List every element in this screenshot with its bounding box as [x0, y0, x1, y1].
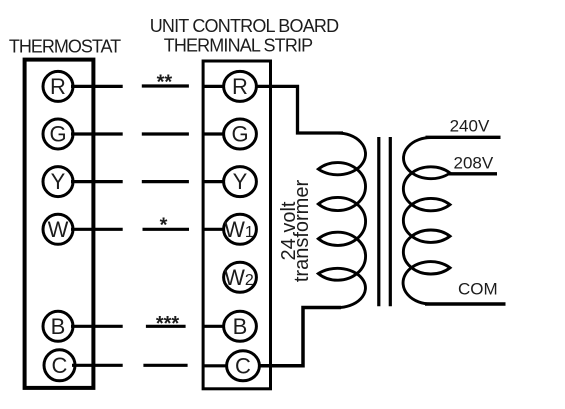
- svg-text:B: B: [51, 314, 66, 339]
- terminal W1 (control board): [224, 214, 257, 244]
- svg-text:R: R: [50, 74, 66, 99]
- svg-text:C: C: [235, 353, 251, 378]
- svg-text:**: **: [157, 72, 173, 94]
- terminal G (thermostat): [43, 119, 73, 149]
- svg-text:transformer: transformer: [291, 180, 313, 283]
- wire G board stub: [203, 132, 225, 135]
- wire Y board stub: [203, 180, 225, 183]
- wire R board to transformer primary top lead: [255, 86, 343, 133]
- terminal R (control board): [224, 71, 257, 101]
- svg-text:C: C: [52, 353, 68, 378]
- terminal G (control board): [224, 119, 257, 149]
- svg-text:***: ***: [156, 313, 180, 335]
- wire C board to transformer primary bottom lead: [258, 308, 341, 366]
- terminal Y (control board): [224, 167, 257, 197]
- label 24 volt transformer: [278, 180, 313, 283]
- wire COM tap lead: [425, 302, 506, 305]
- wire Y thermostat stub: [71, 180, 123, 183]
- svg-text:COM: COM: [458, 280, 498, 299]
- svg-text:*: *: [160, 215, 168, 237]
- terminal R (thermostat): [43, 71, 73, 101]
- terminal W2 (control board): [224, 262, 257, 292]
- transformer secondary winding (5 turns): [403, 138, 450, 305]
- wire G field segment: [142, 132, 189, 135]
- terminal B (control board): [224, 311, 257, 341]
- svg-text:THERMINAL STRIP: THERMINAL STRIP: [164, 36, 313, 56]
- thermostat box: [25, 60, 94, 388]
- wire W thermostat stub: [71, 228, 123, 231]
- svg-text:Y: Y: [51, 169, 66, 194]
- terminal Y (thermostat): [43, 167, 73, 197]
- terminal C (control board): [227, 351, 260, 381]
- wire B thermostat stub: [71, 325, 123, 328]
- wire R field segment: [142, 84, 189, 87]
- wire B board stub: [203, 325, 225, 328]
- wire Y field segment: [142, 180, 189, 183]
- svg-text:Y: Y: [233, 169, 248, 194]
- terminal W (thermostat): [43, 214, 73, 244]
- svg-text:G: G: [231, 122, 248, 147]
- svg-text:B: B: [233, 314, 248, 339]
- svg-text:G: G: [49, 122, 66, 147]
- wire R thermostat stub: [71, 85, 123, 88]
- wire W field segment: [143, 228, 190, 231]
- svg-text:240V: 240V: [450, 116, 490, 135]
- transformer core line right: [389, 137, 392, 306]
- svg-text:UNIT CONTROL BOARD: UNIT CONTROL BOARD: [150, 16, 339, 36]
- svg-text:W: W: [48, 217, 69, 242]
- terminal B (thermostat): [43, 311, 73, 341]
- wire B field segment: [146, 325, 186, 328]
- wire R board stub: [203, 85, 225, 88]
- svg-text:208V: 208V: [454, 154, 494, 173]
- transformer primary winding (5 turns): [318, 133, 365, 308]
- wire C board stub: [203, 364, 228, 367]
- wire G thermostat stub: [71, 132, 123, 135]
- terminal C (thermostat): [44, 350, 75, 381]
- wire W1 board stub: [203, 228, 225, 231]
- svg-text:THERMOSTAT: THERMOSTAT: [9, 37, 121, 57]
- transformer core line left: [377, 137, 380, 306]
- wire C field segment: [143, 364, 187, 367]
- wire C thermostat stub: [72, 364, 123, 367]
- wire 240V tap lead: [426, 136, 501, 139]
- unit control board terminal strip box: [203, 61, 270, 389]
- wire 208V tap lead: [449, 172, 497, 175]
- svg-text:R: R: [232, 74, 248, 99]
